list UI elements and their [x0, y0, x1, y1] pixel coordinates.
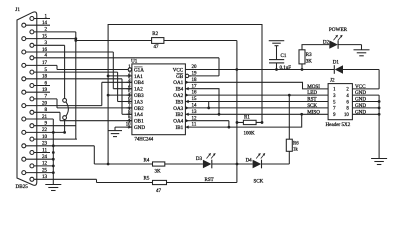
J1 pin 6 — [30, 84, 34, 88]
svg-text:OB4: OB4 — [134, 80, 144, 86]
svg-text:GB: GB — [176, 74, 184, 80]
wire R1 to RST loop — [256, 121, 262, 123]
svg-text:OB2: OB2 — [134, 106, 144, 112]
wire D4 cathode to R6 — [262, 163, 290, 165]
svg-text:DB25: DB25 — [16, 184, 29, 190]
U1 left pin 10 (GND) — [127, 126, 132, 128]
junction RST to U1 pin2 — [107, 75, 110, 78]
svg-text:GND: GND — [355, 90, 366, 96]
wire J1 pin2/pin15 power bus vertical — [75, 32, 77, 139]
svg-text:19: 19 — [192, 72, 198, 77]
svg-text:1A2: 1A2 — [134, 87, 143, 93]
wire R3 to LED D2 — [302, 45, 329, 50]
svg-text:25: 25 — [42, 168, 48, 173]
svg-text:47: 47 — [156, 189, 162, 194]
wire U1 pin12 loop to pin11 — [191, 120, 229, 122]
switch S1 (open contact) — [63, 99, 67, 103]
ground symbol at J2 — [371, 158, 387, 160]
resistor R3 — [299, 50, 305, 64]
svg-text:POWER: POWER — [329, 27, 348, 33]
J1 pin 5 — [30, 70, 34, 74]
connector J1 (DB25) body outline — [17, 12, 37, 185]
svg-text:D4: D4 — [246, 158, 253, 163]
wire R3 to VCC rail — [301, 64, 303, 70]
wire J1 pin8 to U1 pin9 — [59, 112, 61, 120]
svg-text:R1: R1 — [244, 116, 250, 121]
wire SCK to J2 from U1 pin14 — [191, 107, 328, 109]
ground symbol below J1 — [45, 184, 61, 186]
ground symbol at POWER LED — [354, 49, 370, 51]
svg-text:15: 15 — [42, 34, 48, 39]
wire U1 pin15 loop to pin14 — [208, 102, 210, 108]
svg-text:OB3: OB3 — [134, 93, 144, 99]
wire power bus to R2 — [76, 40, 152, 42]
wire R6 to LED net — [288, 95, 290, 139]
wire D1 to J2 VCC corner — [343, 69, 379, 71]
wire J1 pin4 to U1 pin19 enable — [218, 57, 220, 59]
svg-text:18: 18 — [42, 75, 48, 80]
svg-text:11: 11 — [42, 148, 47, 153]
svg-text:J2: J2 — [330, 78, 335, 84]
svg-text:D1: D1 — [333, 60, 340, 65]
wire D2 cathode to ground — [338, 44, 361, 46]
junction GND bus dots — [378, 100, 381, 103]
junction RST to U1 pin5 — [107, 94, 110, 97]
wire LED net from U1 pin16 — [191, 94, 328, 96]
U1 right pin 17 (IB4) — [185, 88, 191, 90]
wire R4 to D3 — [165, 163, 203, 165]
wire D3 cathode to VCC vertical — [212, 163, 237, 165]
resistor R6 — [286, 139, 292, 151]
svg-text:Header 5X2: Header 5X2 — [326, 122, 351, 128]
U1 right pin 20 (VCC) — [185, 69, 191, 71]
wire ground bus from J1 lower pins — [52, 119, 54, 185]
wire MISO from U1 pin13 — [191, 113, 328, 115]
svg-text:MOSI: MOSI — [307, 84, 320, 90]
wire U1 pin17 loop to pin13 — [191, 89, 219, 115]
wire VCC vertical R2 to R5 — [236, 41, 238, 183]
svg-text:C1: C1 — [281, 54, 287, 59]
wire J2 GND pin6 — [352, 101, 379, 103]
wire J1 pin13 to R5 — [96, 179, 98, 182]
svg-text:47: 47 — [154, 45, 160, 50]
svg-text:OA1: OA1 — [173, 80, 183, 86]
svg-text:R3: R3 — [306, 53, 312, 58]
wire J1 pin5 to U1 pin6 — [117, 72, 119, 101]
junction LED/R6 — [288, 94, 291, 97]
wire J1 pin20 to U1 pin3 — [101, 82, 103, 105]
U1 right pin 19 (GB) — [185, 74, 188, 77]
U1 left pin 9 (OB1) — [127, 120, 132, 122]
svg-text:21: 21 — [42, 115, 48, 120]
svg-text:SCK: SCK — [254, 180, 264, 185]
svg-text:GND: GND — [355, 103, 366, 109]
svg-text:U1: U1 — [131, 59, 138, 65]
wire J2 GND pin4 — [352, 94, 379, 96]
svg-text:OA2: OA2 — [173, 93, 183, 99]
svg-text:D3: D3 — [196, 157, 203, 162]
wire RST net top loop — [108, 25, 262, 165]
U1 left pin 8 (1A4) — [127, 113, 132, 115]
junction dots on ground bus — [52, 131, 55, 134]
svg-text:100K: 100K — [244, 132, 256, 137]
svg-text:14: 14 — [42, 21, 48, 26]
wire J1 pin3 to switch — [64, 45, 66, 98]
J1 pin 24 — [22, 157, 26, 161]
svg-text:1A3: 1A3 — [134, 99, 143, 105]
svg-text:10: 10 — [344, 113, 349, 118]
U1 right pin 15 (IB3) — [185, 101, 191, 103]
wire VCC vertical to R1 — [237, 121, 243, 123]
J1 pin 10 — [30, 137, 34, 141]
svg-text:R2: R2 — [152, 32, 158, 37]
wire J2 GND pin8 — [352, 107, 379, 109]
LED D4 (SCK) — [253, 160, 262, 169]
svg-text:19: 19 — [42, 88, 48, 93]
U1 right pin 14 (OA3) — [185, 107, 191, 109]
J1 pin 4 — [30, 56, 34, 60]
U1 right pin 16 (OA2) — [185, 94, 191, 96]
J1 pin 11 — [30, 151, 34, 155]
resistor R1 — [243, 120, 256, 124]
ground symbol at U1 pin10 — [108, 130, 122, 132]
svg-text:VCC: VCC — [173, 67, 184, 73]
svg-text:LED: LED — [307, 90, 317, 96]
svg-text:12: 12 — [42, 162, 48, 167]
svg-text:GND: GND — [355, 109, 366, 115]
junction VCC/R3 — [301, 68, 304, 71]
junction R2 feed — [74, 39, 77, 42]
svg-text:16: 16 — [42, 48, 48, 53]
LED D3 (RST) — [203, 160, 212, 169]
U1 right pin 13 (IB2) — [185, 113, 191, 115]
wire MOSI from U1 pin18 — [191, 82, 328, 89]
U1 right pin 12 (OA4) — [185, 120, 191, 122]
wire R5 to VCC vertical — [167, 182, 237, 184]
U1 pin10 ground wire — [115, 126, 132, 128]
svg-text:GND: GND — [355, 97, 366, 103]
svg-text:R6: R6 — [293, 142, 299, 147]
junction RST loop / R4 line — [107, 163, 110, 166]
J1 pin 12 — [30, 164, 34, 168]
J1 pin 1 — [30, 17, 34, 21]
svg-text:1A4: 1A4 — [134, 112, 143, 118]
wire GND bus to ground — [378, 95, 380, 158]
svg-text:GND: GND — [134, 125, 145, 131]
svg-text:3K: 3K — [155, 170, 162, 175]
J1 pin 16 — [22, 50, 26, 54]
svg-text:1A1: 1A1 — [134, 74, 143, 80]
wire switch to J1 pin22 row — [64, 120, 66, 133]
svg-text:17: 17 — [42, 61, 48, 66]
J1 pin 21 — [22, 117, 26, 121]
U1 left pin 7 (OB2) — [127, 107, 132, 109]
junction VCC/C1 — [275, 68, 278, 71]
wire U1 pin2 from RST vertical — [108, 75, 128, 77]
svg-text:R4: R4 — [144, 158, 150, 163]
wire U1 pin5 from RST vertical — [108, 94, 132, 96]
wire U1 pin11 to MISO — [191, 114, 302, 127]
diode D1 — [333, 65, 335, 74]
svg-text:OA4: OA4 — [173, 119, 183, 125]
J1 pin 8 — [30, 110, 34, 114]
J1 pin 23 — [22, 144, 26, 148]
U1 left pin 2 (1A1) — [127, 75, 132, 77]
LED D2 (POWER) — [329, 40, 338, 48]
svg-text:74HC244: 74HC244 — [135, 137, 154, 142]
capacitor C1 — [276, 46, 278, 60]
svg-text:10: 10 — [42, 135, 48, 140]
wire J2 GND pin10 — [352, 113, 379, 115]
svg-text:22: 22 — [42, 128, 48, 133]
svg-text:IB3: IB3 — [176, 99, 184, 105]
wire RST to J2 from U1 pin15 — [191, 101, 328, 103]
J1 pin 19 — [22, 90, 26, 94]
connector J2 (Header 5X2) body — [328, 84, 352, 120]
junction VCC/R2-vertical — [235, 68, 238, 71]
U1 left pin 1 (G1A) — [128, 68, 131, 71]
svg-text:24: 24 — [42, 155, 48, 160]
J1 pin 25 — [22, 171, 26, 175]
junction VCC vertical / R1 — [236, 121, 239, 124]
svg-text:IB2: IB2 — [176, 112, 184, 118]
wire R2 to VCC vertical — [164, 40, 237, 42]
J1 pin 2 — [30, 30, 34, 34]
J1 pin 14 — [22, 23, 26, 27]
junction VCC vertical / LED row — [236, 163, 239, 166]
resistor R5 — [153, 180, 167, 184]
svg-text:RST: RST — [307, 97, 317, 103]
svg-text:IB1: IB1 — [176, 125, 184, 131]
J1 pin 13 — [30, 177, 34, 181]
U1 left pin 4 (1A2) — [127, 88, 132, 90]
J1 pin 18 — [22, 77, 26, 81]
svg-text:OB1: OB1 — [134, 119, 144, 125]
svg-text:MISO: MISO — [307, 109, 320, 115]
svg-text:13: 13 — [42, 175, 48, 180]
U1 right pin 18 (OA1) — [185, 81, 191, 83]
wire J2 VCC pin2 — [352, 88, 379, 90]
svg-text:3K: 3K — [306, 60, 313, 65]
svg-text:IB4: IB4 — [176, 87, 184, 93]
ground symbol above C1 — [269, 40, 285, 42]
svg-text:OA3: OA3 — [173, 106, 183, 112]
svg-text:D2: D2 — [323, 40, 330, 45]
resistor R4 — [153, 162, 165, 166]
J1 pin 9 — [30, 124, 34, 128]
J1 pin 15 — [22, 37, 26, 41]
wire J1 pin7 to U1 pin7 — [56, 99, 58, 108]
svg-text:23: 23 — [42, 142, 48, 147]
J1 pin 3 — [30, 43, 34, 47]
U1 right pin 11 (IB1) — [185, 126, 191, 128]
svg-text:R5: R5 — [144, 177, 150, 182]
J1 pin 20 — [22, 104, 26, 108]
resistor R2 — [152, 38, 164, 44]
U1 left pin 3 (OB4) — [127, 81, 132, 83]
wire J1 pin17 to U1 pin1 — [56, 65, 58, 69]
svg-text:1k: 1k — [293, 148, 298, 153]
U1 left pin 5 (OB3) — [127, 94, 132, 96]
op-amp buffer U1 74HC244 body — [132, 64, 186, 135]
svg-text:SCK: SCK — [307, 103, 317, 109]
wire VCC rail from U1 pin20 — [191, 69, 334, 71]
svg-text:0.1uF: 0.1uF — [280, 66, 292, 71]
J1 pin 22 — [22, 130, 26, 134]
wire VCC vertical to D4 anode — [237, 163, 253, 165]
wire J1 pin18 to U1 pin8 — [121, 79, 123, 115]
wire J1 pin16 to U1 pin4 — [112, 52, 114, 89]
svg-text:20: 20 — [42, 101, 48, 106]
J1 pin 7 — [30, 97, 34, 101]
U1 left pin 6 (1A3) — [127, 101, 132, 103]
J1 pin 17 — [22, 63, 26, 67]
wire J1 pin23 to RST LED row — [93, 146, 95, 164]
svg-text:J1: J1 — [15, 7, 20, 13]
svg-text:G1A: G1A — [134, 67, 144, 73]
svg-text:VCC: VCC — [355, 84, 366, 90]
